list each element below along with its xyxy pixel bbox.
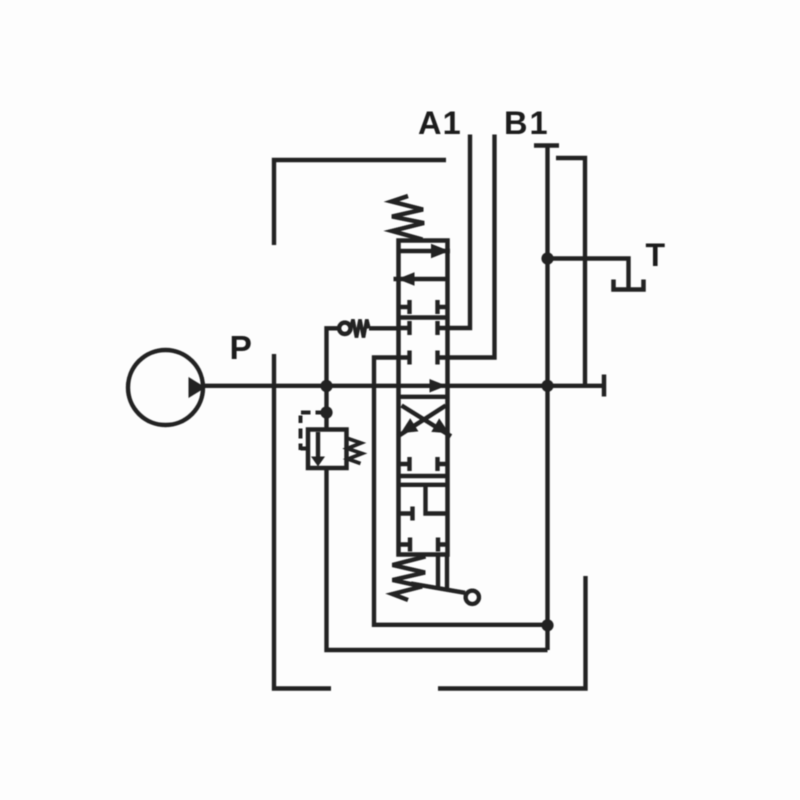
check valve spring [351, 320, 370, 338]
boundary bottom-right bracket [438, 576, 586, 689]
junction dot B1 line on P [541, 380, 553, 392]
wire check valve branch from P junction [327, 328, 340, 386]
lever arm [411, 584, 465, 593]
valve row2 port left [399, 321, 410, 335]
junction dot pilot tap [320, 406, 332, 418]
relief valve V1 box [308, 430, 347, 469]
relief valve internal arrow [316, 432, 320, 457]
wire tank branch to T [548, 259, 629, 288]
port B1 top bar [534, 143, 559, 148]
valve row4 blocked port right [438, 457, 448, 471]
junction dot bottom tank loop [541, 619, 553, 631]
valve section divider 1 [399, 315, 448, 319]
lever stem right line [445, 555, 449, 589]
wire check valve to valve row2 left [369, 326, 399, 330]
valve float-section internal step [426, 485, 448, 514]
valve top return spring [392, 196, 425, 240]
wire relief valve feed [324, 386, 328, 430]
valve row2 port right [438, 321, 448, 335]
wire B1 vertical main [545, 146, 549, 650]
boundary left lower segment [274, 354, 331, 689]
valve row5 blocked port left [399, 507, 413, 521]
valve position-a arrow right [399, 249, 451, 253]
boundary top-left bracket [274, 160, 446, 245]
tank symbol [614, 280, 644, 290]
valve row4 blocked port left [399, 457, 410, 471]
svg-text:P: P [230, 330, 252, 367]
wire valve row3 left / P tap down to bottom tank loop [374, 358, 548, 625]
valve row3 port right [438, 351, 448, 365]
valve bottom spring [393, 557, 426, 601]
valve crossed arrow 2 [398, 406, 446, 437]
svg-text:B1: B1 [504, 105, 550, 141]
valve main body box [399, 241, 448, 555]
valve crossed arrow 1 [402, 406, 452, 437]
relief valve spring [348, 439, 363, 464]
wire relief valve output to tank line [327, 468, 548, 650]
check valve ball [339, 323, 350, 334]
valve row3 port left [399, 351, 410, 365]
P line plugged termination bar [602, 375, 607, 397]
wire port B1 branch down to valve row3 right [448, 135, 495, 358]
boundary top-right bracket [556, 158, 585, 386]
pump circle [128, 350, 203, 425]
valve row1 blocked port left [399, 300, 410, 314]
lever handle ball [466, 591, 479, 604]
valve section divider 2 [399, 395, 448, 399]
lever stem left line [436, 555, 440, 587]
valve row6 blocked port left [399, 538, 411, 552]
valve section divider 4 [399, 483, 448, 487]
valve row6 blocked port right [438, 538, 448, 552]
wire port A1 down to valve row2 right [448, 135, 471, 329]
junction dot tank branch [541, 252, 553, 264]
valve section divider 3 [399, 474, 448, 478]
valve position-a arrow left [394, 277, 448, 281]
wire main P line [203, 384, 606, 388]
valve P-flow arrowhead [430, 379, 447, 393]
pilot dashed line [301, 413, 322, 451]
svg-text:A1: A1 [418, 105, 462, 141]
junction dot P / relief-check branch [320, 380, 332, 392]
valve row1 blocked port right [438, 300, 448, 314]
pump flow arrowhead [189, 377, 206, 398]
svg-text:T: T [646, 237, 666, 273]
